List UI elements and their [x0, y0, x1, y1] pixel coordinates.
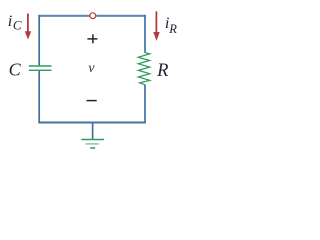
wire top-right segment [96, 15, 146, 17]
capacitor C1 plates [29, 66, 52, 70]
svg-text:C: C [9, 60, 22, 80]
wire bottom segment [38, 121, 146, 123]
wire right upper [144, 15, 146, 53]
current arrow i_C (red, down) [25, 14, 31, 40]
minus sign [87, 100, 97, 102]
svg-text:R: R [156, 61, 168, 81]
resistor R1 zigzag [138, 53, 149, 85]
wire left lower [38, 71, 40, 123]
wire top-left segment [38, 15, 90, 17]
current arrow i_R (red, down) [153, 11, 159, 41]
ground symbol [81, 123, 104, 149]
plus sign [87, 34, 97, 43]
svg-text:C: C [13, 17, 22, 32]
wire right lower [144, 85, 146, 123]
wire left upper [38, 15, 40, 66]
node terminal circle [90, 13, 96, 19]
svg-text:v: v [88, 60, 95, 75]
svg-text:R: R [168, 22, 177, 36]
